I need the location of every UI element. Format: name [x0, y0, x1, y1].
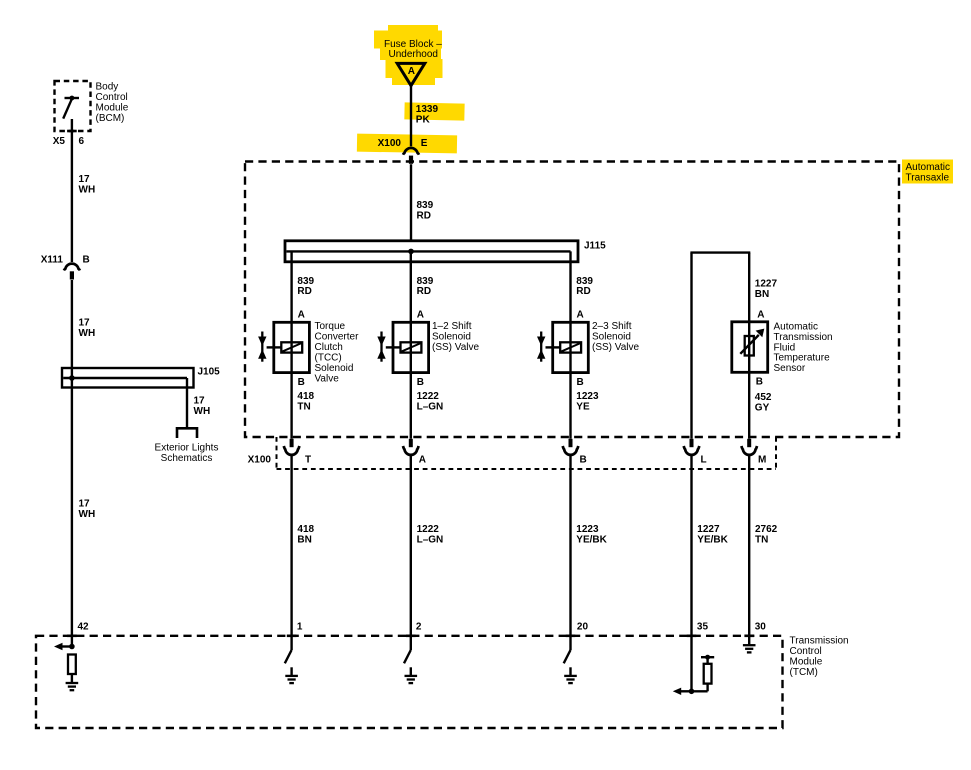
svg-text:J115: J115 [584, 240, 606, 251]
svg-text:Solenoid: Solenoid [592, 331, 631, 342]
svg-text:Solenoid: Solenoid [432, 331, 471, 342]
svg-text:PK: PK [416, 114, 431, 125]
svg-text:Valve: Valve [315, 373, 340, 384]
svg-text:YE: YE [576, 402, 590, 413]
svg-text:J105: J105 [198, 367, 221, 378]
svg-text:Body: Body [96, 82, 119, 93]
svg-text:Control: Control [790, 646, 822, 657]
svg-text:GY: GY [755, 403, 770, 414]
svg-text:(BCM): (BCM) [96, 113, 125, 124]
svg-text:1222: 1222 [417, 524, 440, 535]
svg-text:1339: 1339 [416, 104, 439, 115]
svg-text:418: 418 [297, 524, 314, 535]
svg-text:839: 839 [576, 276, 593, 287]
svg-text:A: A [408, 66, 415, 77]
svg-text:Automatic: Automatic [906, 162, 950, 173]
svg-text:1–2 Shift: 1–2 Shift [432, 321, 472, 332]
svg-text:TN: TN [755, 535, 768, 546]
svg-text:1223: 1223 [576, 391, 599, 402]
svg-text:Transmission: Transmission [774, 332, 833, 343]
svg-text:17: 17 [194, 396, 206, 407]
svg-text:L–GN: L–GN [417, 535, 444, 546]
svg-text:X5: X5 [53, 136, 66, 147]
svg-text:RD: RD [297, 286, 311, 297]
svg-text:Module: Module [96, 103, 129, 114]
svg-text:17: 17 [79, 499, 91, 510]
svg-text:L–GN: L–GN [417, 402, 444, 413]
svg-text:RD: RD [417, 210, 431, 221]
svg-text:Clutch: Clutch [315, 342, 343, 353]
svg-text:A: A [417, 309, 424, 320]
svg-text:YE/BK: YE/BK [576, 535, 607, 546]
svg-text:X111: X111 [41, 255, 64, 266]
svg-text:BN: BN [755, 289, 769, 300]
svg-text:(SS) Valve: (SS) Valve [592, 342, 639, 353]
svg-text:A: A [577, 309, 584, 320]
svg-text:RD: RD [576, 286, 590, 297]
svg-text:RD: RD [417, 286, 431, 297]
svg-text:Exterior Lights: Exterior Lights [155, 443, 219, 454]
svg-text:TN: TN [297, 402, 310, 413]
svg-text:B: B [577, 377, 584, 388]
svg-text:1227: 1227 [697, 524, 720, 535]
svg-text:B: B [83, 255, 90, 266]
svg-text:Solenoid: Solenoid [315, 363, 354, 374]
svg-text:X100: X100 [248, 454, 272, 465]
svg-text:X100: X100 [378, 138, 402, 149]
svg-text:6: 6 [79, 136, 85, 147]
svg-text:20: 20 [577, 621, 589, 632]
svg-text:839: 839 [417, 276, 434, 287]
svg-text:Temperature: Temperature [774, 353, 831, 364]
svg-text:1223: 1223 [576, 524, 599, 535]
svg-text:17: 17 [79, 318, 91, 329]
svg-text:2: 2 [416, 621, 422, 632]
svg-text:2–3 Shift: 2–3 Shift [592, 321, 632, 332]
svg-text:BN: BN [297, 535, 311, 546]
svg-text:L: L [701, 454, 707, 465]
svg-text:B: B [756, 377, 763, 388]
svg-text:1: 1 [297, 621, 303, 632]
svg-text:(SS) Valve: (SS) Valve [432, 342, 479, 353]
svg-text:Converter: Converter [315, 331, 360, 342]
svg-text:WH: WH [79, 184, 96, 195]
svg-text:Automatic: Automatic [774, 322, 818, 333]
svg-text:A: A [757, 309, 764, 320]
svg-text:Control: Control [96, 92, 128, 103]
svg-text:T: T [305, 454, 311, 465]
svg-text:WH: WH [194, 406, 211, 417]
svg-text:A: A [298, 309, 305, 320]
svg-text:Sensor: Sensor [774, 363, 806, 374]
svg-text:Schematics: Schematics [161, 453, 213, 464]
svg-text:418: 418 [297, 391, 314, 402]
svg-text:Transaxle: Transaxle [906, 173, 950, 184]
svg-text:B: B [417, 377, 424, 388]
svg-text:(TCM): (TCM) [790, 667, 818, 678]
svg-text:Torque: Torque [315, 321, 346, 332]
svg-text:17: 17 [79, 174, 91, 185]
svg-text:YE/BK: YE/BK [697, 535, 728, 546]
svg-text:839: 839 [297, 276, 314, 287]
svg-text:Fluid: Fluid [774, 342, 796, 353]
svg-text:WH: WH [79, 509, 96, 520]
svg-text:(TCC): (TCC) [315, 352, 342, 363]
svg-text:1222: 1222 [417, 391, 440, 402]
svg-text:WH: WH [79, 328, 96, 339]
svg-text:452: 452 [755, 392, 772, 403]
svg-text:Underhood: Underhood [389, 49, 438, 60]
svg-text:B: B [580, 454, 587, 465]
svg-text:35: 35 [697, 621, 709, 632]
svg-text:42: 42 [78, 621, 90, 632]
svg-text:839: 839 [417, 200, 434, 211]
svg-text:2762: 2762 [755, 524, 778, 535]
svg-text:A: A [419, 454, 426, 465]
svg-text:Transmission: Transmission [790, 636, 849, 647]
svg-text:B: B [298, 377, 305, 388]
svg-text:30: 30 [755, 621, 767, 632]
svg-text:1227: 1227 [755, 278, 778, 289]
svg-text:E: E [421, 138, 428, 149]
svg-text:M: M [758, 454, 766, 465]
svg-text:Module: Module [790, 657, 823, 668]
